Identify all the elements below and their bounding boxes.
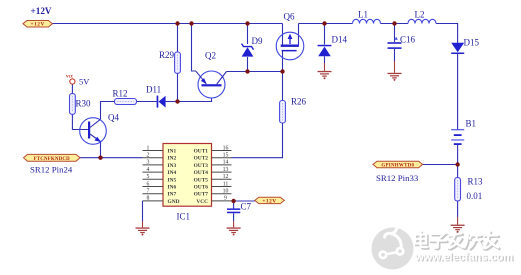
svg-text:SR12 Pin33: SR12 Pin33 [376, 173, 419, 183]
svg-text:5: 5 [147, 174, 150, 180]
ground (C7) [227, 227, 241, 235]
node Q4 emitter / IN2 [98, 156, 102, 160]
svg-text:IN2: IN2 [168, 156, 177, 162]
IC pins left (1-8) [143, 151, 164, 201]
wire VCC pin to +12V port [234, 200, 255, 202]
wire R29 bottom to node [177, 73, 179, 101]
MOSFET Q6 [276, 32, 304, 60]
zener diode D9 [242, 44, 254, 57]
wire R26 bottom to OUT2 pin [232, 123, 283, 158]
svg-text:D9: D9 [252, 36, 263, 46]
svg-text:2: 2 [147, 153, 150, 159]
svg-text:VCC: VCC [196, 199, 208, 205]
node C16 top [392, 21, 396, 25]
IC pin numbers left [147, 145, 150, 201]
svg-text:C7: C7 [241, 202, 252, 212]
wire R29 top [177, 24, 179, 53]
svg-text:IN5: IN5 [168, 177, 177, 183]
resistor R13 [455, 178, 461, 201]
svg-text:R12: R12 [113, 89, 128, 99]
node D14 top [322, 21, 326, 25]
svg-text:IN1: IN1 [168, 149, 177, 155]
svg-text:OUT4: OUT4 [194, 170, 209, 176]
resistor R30 [70, 94, 76, 115]
svg-text:B1: B1 [466, 119, 477, 129]
resistor R12 [115, 99, 137, 105]
port +12V top-left [23, 21, 52, 28]
ground (C16) [388, 73, 402, 81]
port +12V right [255, 197, 284, 204]
svg-text:OUT3: OUT3 [194, 163, 209, 169]
WATERMARK [372, 228, 515, 270]
svg-text:16: 16 [223, 145, 229, 151]
node Q6 gate / R26 [280, 69, 284, 73]
node R29 top [175, 21, 179, 25]
svg-text:R26: R26 [291, 97, 307, 107]
wire Q2 emitter lead [192, 24, 197, 72]
svg-text:OUT1: OUT1 [194, 149, 209, 155]
capacitor C7 [227, 208, 240, 213]
svg-text:IN4: IN4 [168, 170, 177, 176]
svg-text:5V: 5V [79, 77, 90, 87]
svg-text:OUT2: OUT2 [194, 156, 209, 162]
svg-text:Q4: Q4 [108, 113, 119, 123]
svg-text:Q6: Q6 [284, 12, 295, 22]
svg-text:IN6: IN6 [168, 185, 177, 191]
transistor Q2 (PNP) [196, 71, 227, 98]
port SR12 Pin24 [24, 154, 81, 161]
svg-text:9: 9 [224, 196, 227, 202]
svg-text:10: 10 [223, 189, 229, 195]
wire C7 to ground [233, 213, 235, 221]
svg-text:1: 1 [147, 145, 150, 151]
wire R30 to Q4 base [72, 114, 88, 129]
svg-text:7: 7 [147, 189, 150, 195]
svg-text:R29: R29 [159, 50, 175, 60]
svg-text:8: 8 [147, 196, 150, 202]
wire R12 to D11 [137, 101, 157, 103]
wire C16 top [394, 24, 396, 43]
wire D9 bottom [247, 57, 249, 72]
port SR12 Pin33 [373, 161, 423, 168]
node Q2 emitter [189, 21, 193, 25]
transistor Q4 (NPN) [80, 118, 107, 145]
svg-text:OUT6: OUT6 [194, 185, 209, 191]
svg-text:OUT5: OUT5 [194, 177, 209, 183]
svg-text:3: 3 [147, 160, 150, 166]
svg-text:vcc: vcc [66, 74, 74, 80]
IC IC1 body [163, 144, 212, 207]
wire D14 top [324, 24, 326, 45]
ground (D14) [318, 71, 332, 79]
svg-text:GPINHWTD0: GPINHWTD0 [381, 163, 414, 168]
svg-text:R30: R30 [76, 99, 92, 109]
diode D14 [318, 45, 332, 57]
diode D15 [451, 43, 464, 54]
svg-text:D14: D14 [332, 35, 348, 45]
wire VCC to R30 [71, 84, 73, 93]
svg-text:+12V: +12V [262, 198, 276, 204]
wire port Pin24 to IN2 [80, 157, 143, 159]
svg-text:+12V: +12V [31, 6, 52, 16]
svg-text:0.01: 0.01 [467, 191, 483, 201]
wire D15 to B1 [457, 54, 459, 130]
wire B1 to R13 [457, 144, 459, 178]
node R29/D11/Q2 base [175, 99, 179, 103]
resistor R29 [175, 52, 181, 73]
wire Q6 left lead [282, 24, 284, 46]
svg-text:GND: GND [168, 199, 180, 205]
wire L2 to right corner [436, 24, 458, 44]
wire L1 to L2 via C16 node [381, 23, 409, 25]
wire D9 top [247, 24, 249, 45]
wire Q4 emitter down [100, 142, 102, 158]
svg-text:Q2: Q2 [205, 51, 216, 61]
wire Q4 collector up to R12 [101, 102, 115, 120]
svg-text:IN3: IN3 [168, 163, 177, 169]
battery B1 [451, 129, 464, 145]
svg-text:L1: L1 [358, 10, 368, 20]
wire Q6 gate down to node [282, 51, 284, 101]
wire bus Q6 to L1 [299, 23, 353, 25]
svg-text:C16: C16 [400, 35, 416, 45]
svg-text:D15: D15 [464, 38, 480, 48]
svg-text:14: 14 [223, 160, 229, 166]
svg-text:OUT7: OUT7 [194, 192, 209, 198]
wire C16 to ground [394, 49, 396, 61]
svg-text:6: 6 [147, 181, 150, 187]
IC pins right (9-16) [212, 151, 232, 201]
svg-text:12: 12 [223, 174, 229, 180]
node VCC pin / C7 [231, 199, 235, 203]
wire port Pin33 to node [423, 164, 458, 166]
svg-text:L2: L2 [415, 10, 425, 20]
svg-text:IN7: IN7 [168, 192, 177, 198]
svg-text:IC1: IC1 [177, 212, 191, 222]
svg-text:4: 4 [147, 167, 150, 173]
node D9 bottom [245, 69, 249, 73]
svg-text:FTCNFKNDCD: FTCNFKNDCD [34, 157, 71, 162]
wire Q6 right lead [298, 24, 300, 46]
svg-text:R13: R13 [468, 177, 484, 187]
capacitor C16 (polarized) [388, 37, 402, 49]
wire D11 to node [166, 101, 178, 103]
node D9 top [245, 21, 249, 25]
wire C7 top [233, 201, 235, 208]
inductor L2 [408, 19, 436, 23]
IC pin numbers right [223, 145, 229, 201]
inductor L1 [353, 19, 381, 23]
wire Q2 collector to Q6 gate node [227, 71, 283, 73]
svg-text:+12V: +12V [31, 22, 45, 28]
wire D14 to ground [324, 56, 326, 63]
power VCC 5V marker [70, 79, 75, 84]
ground (IC GND) [136, 227, 150, 235]
node B1 / Pin33 / R13 [455, 162, 459, 166]
svg-text:13: 13 [223, 167, 229, 173]
svg-text:15: 15 [223, 153, 229, 159]
resistor R26 [280, 101, 286, 124]
ground (R13) [451, 225, 465, 233]
svg-text:D11: D11 [146, 85, 161, 95]
wire GND pin to ground [142, 201, 144, 221]
svg-text:11: 11 [223, 181, 229, 187]
wire Q2 base down-left to node [178, 98, 212, 102]
diode D11 [157, 96, 166, 108]
svg-text:www.elecfans.com: www.elecfans.com [414, 251, 513, 263]
wire R13 to ground [457, 201, 459, 217]
IC pin names [168, 149, 209, 205]
svg-text:SR12 Pin24: SR12 Pin24 [30, 165, 73, 175]
wire top bus left (+12V to Q6) [52, 23, 282, 25]
